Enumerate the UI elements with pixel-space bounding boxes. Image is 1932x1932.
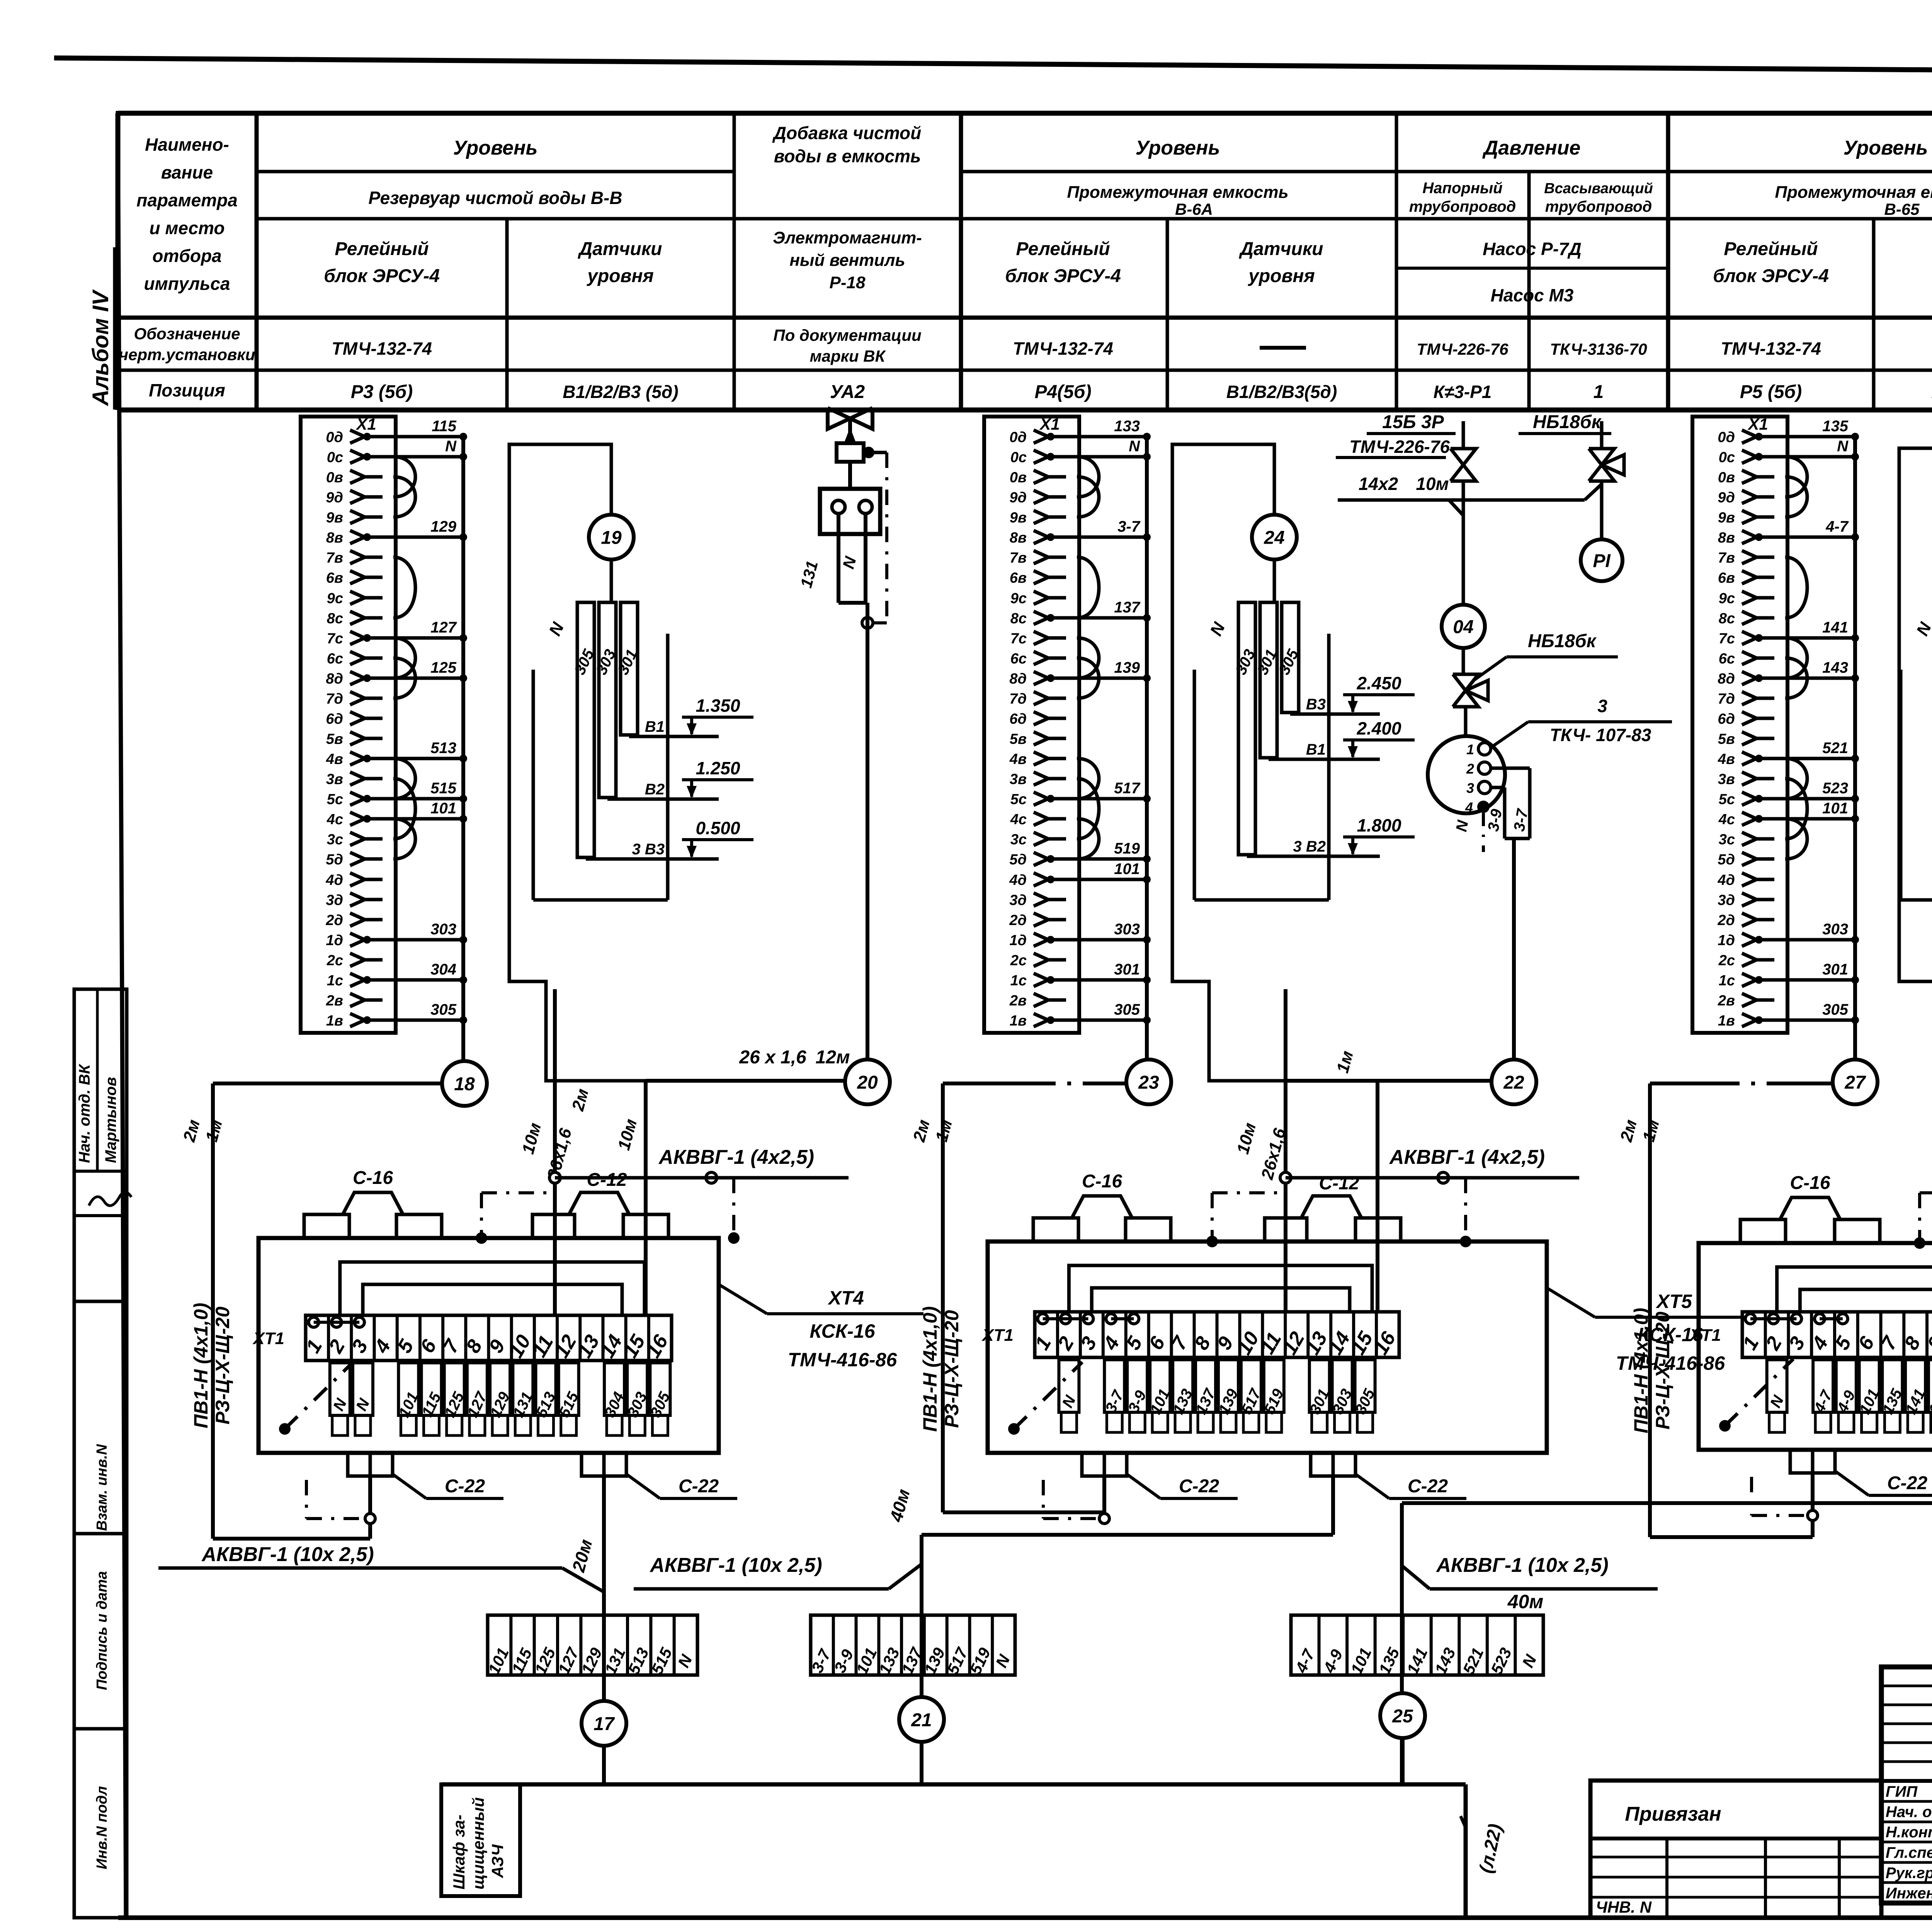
level bracket (group 3) <box>1901 634 1932 900</box>
svg-text:6д: 6д <box>1718 711 1735 727</box>
table cell Промежуточная емкость В-65 <box>1775 183 1932 218</box>
cable drop 2 (group 2) <box>1376 1081 1379 1312</box>
label НБ18бк lower (group 2) <box>1474 631 1618 680</box>
table cell Напорный трубопровод (1) <box>1409 180 1516 215</box>
table cell Насос Р-7Д / Насос М3 <box>1483 239 1582 305</box>
pin 3д X1 group 3 <box>1718 892 1774 908</box>
pin 8д X1 group 3 <box>1718 659 1859 687</box>
dash-dot link below box 3 <box>1752 1477 1818 1520</box>
svg-text:Привязан: Привязан <box>1625 1803 1721 1825</box>
pin 8д X1 group 1 <box>326 659 467 687</box>
svg-text:Датчики: Датчики <box>578 239 662 259</box>
level mark 3 В2 = 1.800 (group 2) <box>1247 815 1415 856</box>
pin 9с X1 group 1 <box>327 590 383 607</box>
terminal bridges (group 2) <box>1038 1314 1139 1324</box>
svg-text:Р4(5б): Р4(5б) <box>1034 382 1091 402</box>
signature rows <box>1886 1783 1932 1902</box>
connector С-22 right (group 2) <box>1311 1453 1466 1498</box>
svg-text:Подпись и дата: Подпись и дата <box>94 1571 110 1690</box>
svg-text:301: 301 <box>1114 961 1140 978</box>
svg-text:трубопровод: трубопровод <box>1409 198 1516 215</box>
svg-text:1д: 1д <box>326 932 343 949</box>
pin 3с X1 group 2 <box>1010 832 1066 848</box>
pin 5в X1 group 1 <box>326 731 383 747</box>
svg-text:В-6А: В-6А <box>1175 200 1213 218</box>
svg-text:ТМЧ-132-74: ТМЧ-132-74 <box>1721 338 1821 359</box>
svg-text:Х1: Х1 <box>1747 415 1768 433</box>
junction box ХТ4 outline (group 1) <box>259 1238 719 1453</box>
level sensor columns (group 2) <box>1206 602 1302 855</box>
table cell ТМЧ-132-74 (3) <box>1721 338 1821 359</box>
pin 6с X1 group 2 <box>1010 651 1066 667</box>
table header Уровень (В-6А) <box>1136 137 1220 159</box>
svg-text:Электромагнит-: Электромагнит- <box>773 228 922 247</box>
dash-dot jumper at box top right (group 2) <box>1438 1172 1471 1247</box>
instrument circle РI <box>1581 539 1622 581</box>
svg-text:2.450: 2.450 <box>1356 673 1401 693</box>
pin 5д X1 group 1 <box>326 852 383 868</box>
svg-text:Уровень: Уровень <box>453 137 538 159</box>
table cell По документации марки ВК <box>773 326 921 365</box>
svg-text:8в: 8в <box>326 530 343 546</box>
svg-text:127: 127 <box>430 619 457 636</box>
svg-text:ный вентиль: ный вентиль <box>789 251 905 270</box>
cable drop 1 (group 2) <box>1280 989 1291 1312</box>
svg-text:517: 517 <box>1114 780 1140 797</box>
cable drop 1 (group 1) <box>549 989 560 1315</box>
connector С-22 left (group 3) <box>1790 1450 1932 1495</box>
svg-text:125: 125 <box>430 659 456 676</box>
wire valve to circle 20 <box>866 603 869 1060</box>
svg-text:Уровень: Уровень <box>1136 137 1220 159</box>
page frame top border <box>54 58 1932 75</box>
level sensor columns (group 1) <box>545 602 641 857</box>
svg-text:4д: 4д <box>1717 872 1735 888</box>
svg-text:3д: 3д <box>326 892 343 908</box>
table cell Резервуар чистой воды В-В <box>368 188 622 208</box>
svg-text:Альбом IV: Альбом IV <box>88 289 113 406</box>
svg-text:4д: 4д <box>1009 872 1027 888</box>
wire loop from circle 28 down <box>1899 448 1932 1081</box>
margin label Инв. N подл. <box>94 1786 110 1869</box>
svg-text:черт.установки: черт.установки <box>119 345 255 364</box>
pin 8в X1 group 3 <box>1718 518 1859 546</box>
valve coil terminal box <box>820 462 880 534</box>
outgoing cable group 1 (20м) <box>568 1476 604 1784</box>
pin 8д X1 group 2 <box>1009 659 1151 687</box>
pin 9с X1 group 3 <box>1719 590 1774 607</box>
svg-text:АКВВГ-1 (10х 2,5): АКВВГ-1 (10х 2,5) <box>649 1554 822 1577</box>
svg-text:Р3 (5б): Р3 (5б) <box>351 382 413 402</box>
svg-text:Нач. отд. ВК: Нач. отд. ВК <box>76 1064 93 1163</box>
pin 7д X1 group 3 <box>1718 691 1774 707</box>
svg-text:С-22: С-22 <box>1408 1476 1448 1497</box>
svg-text:Релейный: Релейный <box>1016 239 1110 259</box>
cable bundle labels group 2 <box>1233 1121 1289 1182</box>
bottom frame line <box>118 1915 1932 1920</box>
svg-text:В1/В2/В3 (5д): В1/В2/В3 (5д) <box>563 382 678 402</box>
svg-text:1: 1 <box>1466 742 1474 757</box>
svg-text:Рук.гр.: Рук.гр. <box>1886 1864 1932 1881</box>
svg-text:трубопровод: трубопровод <box>1545 198 1652 215</box>
svg-text:15Б 3Р: 15Б 3Р <box>1382 412 1444 432</box>
marshalling strip (group 2) <box>808 1615 1015 1677</box>
pin 7в X1 group 1 <box>326 550 383 566</box>
svg-text:УА2: УА2 <box>830 382 865 402</box>
pin 8с X1 group 3 <box>1719 611 1774 627</box>
dash-dot jumper at box top right (group 1) <box>706 1172 740 1244</box>
svg-text:6в: 6в <box>1718 570 1735 586</box>
callout ХТ4 КСК-16 ТМЧ-416-86 (group 1) <box>719 1284 923 1371</box>
junction box ХТ6 outline (group 3) <box>1699 1243 1932 1450</box>
wire valve to PI (group 2) <box>1600 481 1604 539</box>
svg-text:6с: 6с <box>1010 651 1027 667</box>
svg-text:5с: 5с <box>1010 791 1027 808</box>
svg-text:Наимено-: Наимено- <box>145 134 229 155</box>
junction box ХТ5 outline (group 2) <box>988 1242 1547 1453</box>
svg-text:8с: 8с <box>1010 611 1027 627</box>
pin 1в X1 group 2 <box>1010 1001 1151 1029</box>
svg-text:3 В3: 3 В3 <box>632 841 665 858</box>
instrument circle 25 <box>1380 1693 1425 1738</box>
pin 7с X1 group 2 <box>1010 631 1066 647</box>
svg-text:ТМЧ-132-74: ТМЧ-132-74 <box>1013 338 1113 359</box>
svg-text:101: 101 <box>1822 800 1848 817</box>
svg-text:Релейный: Релейный <box>335 239 429 259</box>
svg-text:АЗЧ: АЗЧ <box>488 1844 507 1878</box>
svg-text:С-22: С-22 <box>679 1476 719 1497</box>
svg-text:С-12: С-12 <box>587 1170 627 1190</box>
svg-text:марки ВК: марки ВК <box>810 347 886 365</box>
pin 4в X1 group 2 <box>1009 751 1066 767</box>
svg-text:22: 22 <box>1503 1072 1524 1093</box>
pin 9в X1 group 2 <box>1010 510 1066 526</box>
terminal row ХТ1 1-16 (group 1) <box>252 1315 673 1362</box>
svg-text:ПВ1-Н (4х1,0): ПВ1-Н (4х1,0) <box>919 1306 941 1432</box>
cable label РЗ-Ц-Х-Щ-20 (group 3) <box>1652 1311 1673 1429</box>
table cell dash (2) <box>1260 346 1306 350</box>
pin 4д X1 group 2 <box>1009 861 1151 888</box>
svg-text:3: 3 <box>1597 696 1607 716</box>
terminal bridges (group 1) <box>309 1317 364 1327</box>
margin label Нач. отд. ВК Мартынов <box>76 1064 119 1163</box>
svg-text:Промежуточная емкость: Промежуточная емкость <box>1067 183 1288 202</box>
svg-text:В1: В1 <box>645 718 665 735</box>
binding table Привязан <box>1590 1781 1881 1918</box>
pin 6с X1 group 3 <box>1719 651 1774 667</box>
terminal strip X1 (group 1) <box>301 415 396 1033</box>
svg-text:9в: 9в <box>1010 510 1027 526</box>
callout 3 ТКЧ- 107-83 (group 2) <box>1492 696 1672 747</box>
wire circle 20 to box (10м) <box>614 1047 850 1152</box>
instrument circle 24 <box>1252 515 1297 560</box>
svg-text:0д: 0д <box>1718 429 1735 446</box>
svg-text:В1: В1 <box>1306 741 1326 758</box>
svg-text:В2: В2 <box>645 781 665 798</box>
svg-text:8в: 8в <box>1718 530 1735 546</box>
connector С-12 (group 1) <box>532 1170 668 1238</box>
svg-text:АКВВГ-1 (4х2,5): АКВВГ-1 (4х2,5) <box>658 1146 814 1168</box>
instrument circle 19 <box>589 515 634 560</box>
wire left cable group 2 (2м/1м) <box>910 1083 1126 1512</box>
level mark В2 = 1.250 (group 1) <box>607 758 753 799</box>
svg-text:5д: 5д <box>1718 852 1735 868</box>
svg-text:Р-18: Р-18 <box>830 273 866 292</box>
sheet reference (л.22) <box>1461 1816 1506 1875</box>
svg-text:5в: 5в <box>1718 731 1735 747</box>
svg-text:7с: 7с <box>327 631 343 647</box>
svg-text:9с: 9с <box>1719 590 1735 607</box>
connector С-22 right (group 1) <box>582 1453 737 1498</box>
svg-text:17: 17 <box>594 1714 615 1734</box>
pin 3в X1 group 3 <box>1718 771 1774 787</box>
svg-text:26 х 1,6: 26 х 1,6 <box>739 1047 806 1068</box>
pressure transmitter ТКЧ- 107-83 (group 2) <box>1428 707 1505 815</box>
svg-text:4д: 4д <box>325 872 343 888</box>
svg-text:Нач. отд.: Нач. отд. <box>1886 1804 1932 1821</box>
valve 2c (three-way) <box>1453 649 1488 707</box>
svg-text:18: 18 <box>454 1074 475 1094</box>
svg-text:8с: 8с <box>1719 611 1735 627</box>
svg-text:РЗ-Ц-Х-Щ-20: РЗ-Ц-Х-Щ-20 <box>212 1306 233 1424</box>
bus wire to circle (group 2) <box>1145 437 1149 1061</box>
svg-text:С-22: С-22 <box>1179 1476 1219 1497</box>
cable callout АКВВГ-1 (10х2,5) group 1 <box>158 1543 604 1592</box>
svg-text:2в: 2в <box>1718 993 1735 1009</box>
pin 5в X1 group 3 <box>1718 731 1774 747</box>
svg-text:7д: 7д <box>1718 691 1735 707</box>
svg-text:ГИП: ГИП <box>1886 1783 1918 1800</box>
table cell Релейный блок ЭРСУ-4 (2) <box>1005 239 1121 286</box>
table header Уровень (Резервуар В-В) <box>453 137 538 159</box>
connector С-16 (group 1) <box>304 1168 442 1238</box>
svg-text:С-16: С-16 <box>1790 1173 1830 1193</box>
instrument circle 18 <box>442 1061 487 1106</box>
svg-text:2д: 2д <box>1009 912 1027 929</box>
svg-text:3д: 3д <box>1009 892 1027 908</box>
pin 3с X1 group 1 <box>327 832 383 848</box>
svg-text:Датчики: Датчики <box>1239 239 1323 259</box>
svg-text:6с: 6с <box>1719 651 1735 667</box>
svg-text:ХТ1: ХТ1 <box>1689 1326 1721 1345</box>
svg-text:515: 515 <box>430 780 456 797</box>
pin 9д X1 group 1 <box>326 490 383 506</box>
pin 1в X1 group 1 <box>326 1001 467 1029</box>
svg-text:2с: 2с <box>1010 952 1027 969</box>
connector С-12 (group 2) <box>1265 1173 1401 1242</box>
svg-text:1в: 1в <box>1718 1013 1735 1029</box>
connector С-22 left (group 1) <box>348 1453 503 1498</box>
svg-text:137: 137 <box>1114 599 1140 616</box>
pin 3д X1 group 2 <box>1009 892 1066 908</box>
level mark В3 = 2.450 (group 2) <box>1290 673 1415 714</box>
table cell ТМЧ-132-74 (2) <box>1013 338 1113 359</box>
svg-text:0в: 0в <box>1010 469 1027 486</box>
pin 6в X1 group 1 <box>326 570 383 586</box>
pin 5д X1 group 2 <box>1009 840 1151 868</box>
pin 2в X1 group 3 <box>1718 993 1774 1009</box>
svg-text:4с: 4с <box>1010 811 1027 828</box>
pin 7в X1 group 2 <box>1010 550 1066 566</box>
outgoing cable group 2 (40м) <box>886 1476 1333 1784</box>
table cell Релейный блок ЭРСУ-4 (1) <box>324 239 440 286</box>
svg-text:2в: 2в <box>326 993 343 1009</box>
svg-text:9д: 9д <box>1718 490 1735 506</box>
pin 8с X1 group 1 <box>327 611 383 627</box>
pin 1д X1 group 2 <box>1009 921 1151 949</box>
table row header Наименование параметра <box>136 134 238 294</box>
svg-text:4с: 4с <box>327 811 343 828</box>
svg-text:2д: 2д <box>325 912 343 929</box>
svg-text:9в: 9в <box>1718 510 1735 526</box>
svg-text:3в: 3в <box>1010 771 1027 787</box>
svg-text:5в: 5в <box>326 731 343 747</box>
svg-text:7с: 7с <box>1719 631 1735 647</box>
svg-text:523: 523 <box>1822 780 1848 797</box>
svg-text:Шкаф за-: Шкаф за- <box>450 1815 468 1889</box>
pin 6в X1 group 3 <box>1718 570 1774 586</box>
svg-text:2с: 2с <box>327 952 343 969</box>
svg-text:6в: 6в <box>326 570 343 586</box>
svg-text:305: 305 <box>1822 1001 1848 1018</box>
svg-text:В-65: В-65 <box>1884 200 1920 218</box>
svg-text:6с: 6с <box>327 651 343 667</box>
svg-text:Мартынов: Мартынов <box>102 1077 119 1163</box>
svg-text:ТМЧ-132-74: ТМЧ-132-74 <box>332 338 432 359</box>
internal bus wiring (group 2) <box>1069 1265 1372 1312</box>
svg-text:6д: 6д <box>326 711 343 727</box>
svg-text:АКВВГ-1 (4х2,5): АКВВГ-1 (4х2,5) <box>1389 1146 1545 1168</box>
wire left cable group 1 (2м/1м) <box>180 1083 442 1539</box>
svg-text:2.400: 2.400 <box>1356 718 1401 738</box>
cable label АКВВГ-1 (4х2,5) (group 1) <box>555 1146 849 1178</box>
svg-text:25: 25 <box>1392 1706 1413 1726</box>
wire circle to sensors (group 2) <box>1273 560 1276 602</box>
pin 7в X1 group 3 <box>1718 550 1774 566</box>
svg-text:3-7: 3-7 <box>1117 518 1141 535</box>
pin 4в X1 group 3 <box>1718 740 1859 767</box>
pin 2в X1 group 2 <box>1009 993 1066 1009</box>
pin 4с X1 group 2 <box>1010 811 1066 828</box>
svg-text:12м: 12м <box>816 1047 850 1068</box>
svg-text:8д: 8д <box>326 671 343 687</box>
table cell ТМЧ-226-76 (1) <box>1417 340 1509 358</box>
pin 3д X1 group 1 <box>326 892 383 908</box>
pin 3в X1 group 1 <box>326 771 383 787</box>
cabinet АЗЧ outline <box>441 1784 1466 1918</box>
svg-text:Промежуточная емкость: Промежуточная емкость <box>1775 183 1932 202</box>
instrument circle 23 <box>1126 1060 1171 1104</box>
svg-text:импульса: импульса <box>144 274 230 294</box>
svg-text:уровня: уровня <box>587 266 654 286</box>
level bracket (group 1) <box>533 634 668 900</box>
svg-text:Обозначение: Обозначение <box>134 325 240 343</box>
svg-text:блок ЭРСУ-4: блок ЭРСУ-4 <box>324 266 440 286</box>
svg-text:1: 1 <box>1594 382 1604 402</box>
pin 0в X1 group 1 <box>326 469 383 486</box>
dash-dot jumper at box top (group 3) <box>1914 1193 1932 1249</box>
pin 7с X1 group 1 <box>327 619 467 647</box>
svg-text:Насос М3: Насос М3 <box>1491 285 1574 305</box>
svg-text:9в: 9в <box>326 510 343 526</box>
svg-text:8д: 8д <box>1718 671 1735 687</box>
terminal strip X1 (group 3) <box>1692 415 1787 1033</box>
cable drop 2 (group 1) <box>644 1081 648 1315</box>
svg-text:0в: 0в <box>326 469 343 486</box>
svg-text:N: N <box>445 438 457 455</box>
svg-text:9с: 9с <box>1010 590 1027 607</box>
left border line <box>118 111 126 1918</box>
svg-text:АКВВГ-1 (10х 2,5): АКВВГ-1 (10х 2,5) <box>1435 1554 1608 1577</box>
svg-text:40м: 40м <box>1507 1591 1544 1612</box>
svg-text:6в: 6в <box>1010 570 1027 586</box>
svg-text:Всасывающий: Всасывающий <box>1544 180 1653 197</box>
terminal bridges (group 3) <box>1745 1314 1848 1324</box>
cable down to circle 22 (group 2) <box>1512 838 1516 1060</box>
svg-text:5с: 5с <box>1719 791 1735 808</box>
svg-text:135: 135 <box>1822 418 1848 435</box>
dash-dot link below box 2 <box>1043 1480 1109 1524</box>
svg-text:0д: 0д <box>1009 429 1027 446</box>
svg-text:519: 519 <box>1114 840 1140 857</box>
table cell ТМЧ-132-74 (1) <box>332 338 432 359</box>
connector С-16 (group 3) <box>1740 1173 1880 1243</box>
pin 2с X1 group 1 <box>327 952 383 969</box>
cable label ПВ1-Н (4х1,0) (group 3) <box>1630 1308 1652 1434</box>
svg-text:21: 21 <box>911 1710 932 1730</box>
svg-text:1.800: 1.800 <box>1357 815 1401 835</box>
svg-text:Позиция: Позиция <box>149 380 225 400</box>
svg-text:ТМЧ-226-76: ТМЧ-226-76 <box>1349 437 1450 457</box>
svg-text:8д: 8д <box>1009 671 1027 687</box>
cable label РЗ-Ц-Х-Щ-20 (group 1) <box>212 1306 233 1424</box>
svg-text:ХТ1: ХТ1 <box>252 1329 284 1348</box>
pin 9в X1 group 1 <box>326 510 383 526</box>
cable label ПВ1-Н (4х1,0) (group 1) <box>190 1303 212 1429</box>
pin 6с X1 group 1 <box>327 651 383 667</box>
svg-text:В3: В3 <box>1306 696 1326 713</box>
svg-text:К≠3-Р1: К≠3-Р1 <box>1434 382 1492 402</box>
svg-text:129: 129 <box>430 518 456 535</box>
svg-text:блок ЭРСУ-4: блок ЭРСУ-4 <box>1005 266 1121 286</box>
instrument circle 21 <box>899 1697 944 1742</box>
svg-text:7в: 7в <box>326 550 343 566</box>
pin 0с X1 group 2 <box>1010 438 1151 466</box>
pin 1д X1 group 3 <box>1718 921 1859 949</box>
wire circle 25 to cabinet <box>1401 1738 1405 1784</box>
pin 4в X1 group 1 <box>326 740 467 767</box>
svg-text:С-16: С-16 <box>353 1168 393 1188</box>
svg-text:4в: 4в <box>1009 751 1027 767</box>
table position row values <box>351 382 1932 402</box>
level bracket (group 2) <box>1194 634 1329 900</box>
wire circle 22 to box group 2 <box>1286 1049 1492 1081</box>
svg-text:14х2: 14х2 <box>1359 474 1398 494</box>
svg-text:РЗ-Ц-Х-Щ-20: РЗ-Ц-Х-Щ-20 <box>941 1310 963 1428</box>
bus wire to circle (group 1) <box>461 437 465 1061</box>
svg-text:5в: 5в <box>1010 731 1027 747</box>
svg-text:2с: 2с <box>1718 952 1735 969</box>
wire tags below terminals (group 1) <box>330 1363 673 1435</box>
pin 5с X1 group 2 <box>1010 780 1151 808</box>
svg-text:ТКЧ- 107-83: ТКЧ- 107-83 <box>1550 725 1651 745</box>
title block outline <box>1881 1667 1932 1903</box>
level sensor columns (group 3) <box>1913 602 1932 855</box>
dash-dot incoming wire to circle 27 <box>1719 1082 1777 1085</box>
instrument circle 17 <box>582 1701 626 1746</box>
svg-text:9с: 9с <box>327 590 343 607</box>
svg-text:1в: 1в <box>1010 1013 1027 1029</box>
